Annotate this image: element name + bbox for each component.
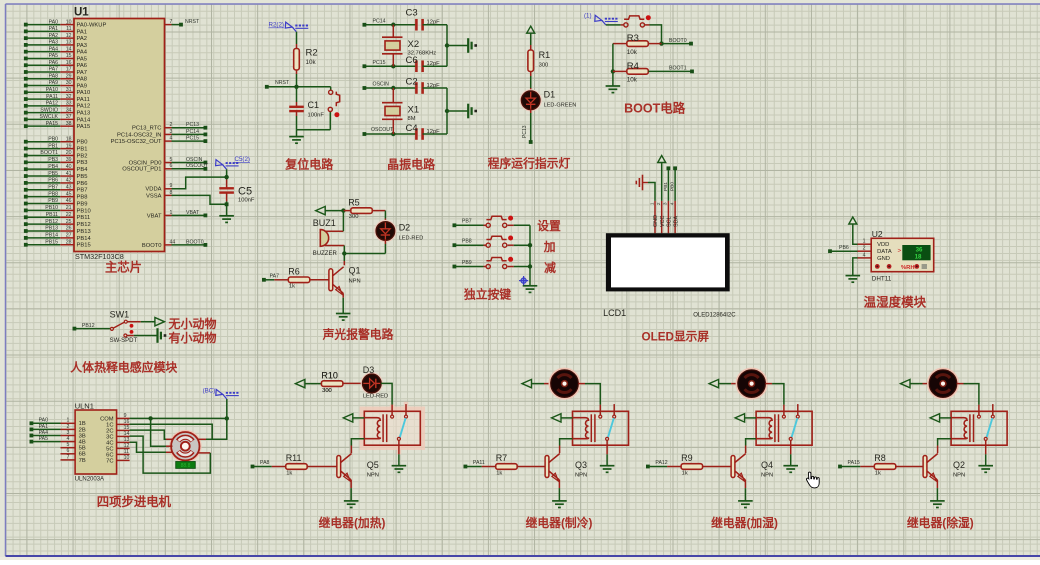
svg-text:4B: 4B bbox=[79, 440, 86, 446]
svg-text:7C: 7C bbox=[106, 458, 113, 464]
svg-text:PA5: PA5 bbox=[39, 436, 49, 442]
svg-text:2: 2 bbox=[863, 246, 866, 252]
svg-text:1: 1 bbox=[67, 418, 70, 424]
svg-text:PA11: PA11 bbox=[473, 460, 485, 466]
svg-text:BOOT0: BOOT0 bbox=[142, 243, 162, 249]
svg-text:D2: D2 bbox=[399, 222, 411, 232]
svg-text:R11: R11 bbox=[286, 453, 302, 463]
svg-text:Q5: Q5 bbox=[367, 460, 379, 470]
svg-text:>: > bbox=[898, 247, 902, 254]
svg-text:继电器(加湿): 继电器(加湿) bbox=[711, 516, 778, 530]
svg-text:6: 6 bbox=[170, 163, 173, 169]
svg-text:PA0: PA0 bbox=[49, 19, 59, 25]
svg-text:OSCOUT: OSCOUT bbox=[371, 127, 394, 133]
svg-text:2: 2 bbox=[67, 424, 70, 430]
svg-text:OSCIN: OSCIN bbox=[186, 157, 203, 163]
svg-text:X1: X1 bbox=[408, 105, 420, 116]
svg-text:PB13: PB13 bbox=[77, 229, 91, 235]
svg-text:25: 25 bbox=[66, 219, 72, 225]
svg-text:12pF: 12pF bbox=[427, 83, 441, 89]
svg-text:SW1: SW1 bbox=[110, 310, 130, 320]
svg-text:BOOT0: BOOT0 bbox=[186, 239, 204, 245]
svg-text:PA11: PA11 bbox=[46, 94, 58, 100]
svg-text:VBAT: VBAT bbox=[147, 213, 162, 219]
svg-text:30: 30 bbox=[66, 80, 72, 86]
svg-text:PA1: PA1 bbox=[49, 26, 59, 32]
svg-text:PB8: PB8 bbox=[462, 239, 472, 245]
svg-text:SWCLK: SWCLK bbox=[40, 114, 59, 120]
svg-text:PA6: PA6 bbox=[49, 60, 59, 66]
svg-text:3: 3 bbox=[170, 129, 173, 135]
svg-text:X2: X2 bbox=[408, 39, 420, 50]
svg-text:加: 加 bbox=[543, 240, 556, 254]
svg-text:PB4: PB4 bbox=[48, 164, 58, 170]
svg-text:R5: R5 bbox=[348, 198, 360, 208]
svg-text:PA2: PA2 bbox=[49, 33, 59, 39]
svg-text:PB12: PB12 bbox=[82, 323, 95, 329]
svg-text:SDA: SDA bbox=[673, 216, 679, 227]
svg-text:16: 16 bbox=[66, 60, 72, 66]
svg-text:6: 6 bbox=[67, 448, 70, 454]
svg-text:NPN: NPN bbox=[953, 473, 965, 479]
svg-text:1: 1 bbox=[170, 210, 173, 216]
svg-text:U1: U1 bbox=[74, 7, 89, 19]
svg-text:PA4: PA4 bbox=[77, 50, 88, 56]
svg-text:PC15-OSC32_OUT: PC15-OSC32_OUT bbox=[111, 139, 162, 145]
svg-text:10k: 10k bbox=[306, 59, 317, 66]
svg-text:31: 31 bbox=[66, 87, 72, 93]
svg-text:C3: C3 bbox=[406, 8, 418, 19]
svg-text:SWDIO: SWDIO bbox=[40, 107, 58, 113]
svg-text:PA10: PA10 bbox=[77, 90, 91, 96]
svg-text:21: 21 bbox=[66, 205, 72, 211]
svg-text:34: 34 bbox=[66, 107, 72, 113]
svg-text:四项步进电机: 四项步进电机 bbox=[97, 494, 172, 509]
svg-text:PA2: PA2 bbox=[77, 36, 88, 42]
svg-text:PB1: PB1 bbox=[663, 182, 669, 191]
svg-text:PA12: PA12 bbox=[46, 101, 58, 107]
svg-text:8M: 8M bbox=[408, 116, 416, 122]
svg-text:PB13: PB13 bbox=[45, 226, 58, 232]
svg-text:D3: D3 bbox=[363, 365, 375, 375]
svg-text:PB10: PB10 bbox=[45, 205, 58, 211]
svg-text:PA8: PA8 bbox=[260, 460, 270, 466]
svg-text:继电器(除湿): 继电器(除湿) bbox=[907, 516, 974, 530]
svg-text:20: 20 bbox=[66, 150, 72, 156]
svg-text:PA11: PA11 bbox=[77, 97, 90, 103]
svg-text:PB1: PB1 bbox=[77, 146, 88, 152]
svg-text:PA12: PA12 bbox=[655, 460, 667, 466]
svg-text:300: 300 bbox=[322, 388, 332, 394]
svg-text:29: 29 bbox=[66, 73, 72, 79]
svg-text:1k: 1k bbox=[496, 470, 502, 476]
svg-text:NPN: NPN bbox=[367, 473, 379, 479]
svg-text:声光报警电路: 声光报警电路 bbox=[322, 328, 394, 342]
svg-text:R2: R2 bbox=[306, 48, 318, 59]
svg-text:1k: 1k bbox=[875, 470, 881, 476]
svg-text:28: 28 bbox=[66, 239, 72, 245]
svg-text:PB4: PB4 bbox=[77, 167, 89, 173]
svg-text:R4: R4 bbox=[627, 61, 639, 72]
svg-text:LED-GREEN: LED-GREEN bbox=[544, 103, 577, 109]
svg-text:39: 39 bbox=[66, 157, 72, 163]
svg-text:44: 44 bbox=[170, 239, 176, 245]
svg-text:OSCOUT_PD1: OSCOUT_PD1 bbox=[122, 167, 161, 173]
svg-text:PA14: PA14 bbox=[77, 117, 92, 123]
svg-text:PB12: PB12 bbox=[45, 219, 58, 225]
svg-text:PA5: PA5 bbox=[49, 53, 59, 59]
svg-text:C4: C4 bbox=[406, 123, 418, 134]
svg-text:PB7: PB7 bbox=[48, 184, 58, 190]
svg-text:BOOT1: BOOT1 bbox=[669, 66, 687, 72]
svg-text:12: 12 bbox=[66, 33, 72, 39]
svg-text:ULN2003A: ULN2003A bbox=[75, 477, 104, 483]
svg-text:6B: 6B bbox=[79, 452, 86, 458]
svg-text:PA10: PA10 bbox=[46, 87, 58, 93]
svg-text:DATA: DATA bbox=[877, 249, 892, 255]
svg-text:Q4: Q4 bbox=[761, 460, 773, 470]
svg-text:PB0: PB0 bbox=[77, 140, 88, 146]
svg-text:PB9: PB9 bbox=[462, 260, 472, 266]
svg-text:1: 1 bbox=[863, 239, 866, 245]
svg-text:PB1: PB1 bbox=[48, 143, 58, 149]
svg-text:PA12: PA12 bbox=[77, 104, 91, 110]
svg-text:Q2: Q2 bbox=[953, 460, 965, 470]
svg-text:继电器(制冷): 继电器(制冷) bbox=[526, 516, 593, 530]
svg-text:R2(2): R2(2) bbox=[269, 22, 284, 29]
svg-text:3B: 3B bbox=[79, 433, 86, 439]
svg-text:PB8: PB8 bbox=[77, 195, 88, 201]
svg-text:继电器(加热): 继电器(加热) bbox=[319, 516, 386, 530]
svg-text:1k: 1k bbox=[286, 470, 292, 476]
svg-text:5: 5 bbox=[170, 157, 173, 163]
svg-text:Q3: Q3 bbox=[575, 460, 587, 470]
svg-text:减: 减 bbox=[544, 261, 556, 275]
svg-text:1B: 1B bbox=[79, 421, 86, 427]
svg-text:10k: 10k bbox=[627, 49, 638, 56]
svg-text:C6: C6 bbox=[406, 55, 418, 66]
svg-text:程序运行指示灯: 程序运行指示灯 bbox=[488, 157, 571, 171]
svg-text:PB8: PB8 bbox=[48, 191, 58, 197]
svg-text:PB6: PB6 bbox=[77, 181, 88, 187]
svg-text:D1: D1 bbox=[544, 90, 556, 100]
svg-text:27: 27 bbox=[66, 233, 72, 239]
svg-text:14: 14 bbox=[66, 46, 72, 52]
svg-text:ULN1: ULN1 bbox=[75, 402, 94, 411]
svg-text:PB0: PB0 bbox=[48, 136, 58, 142]
svg-text:PB14: PB14 bbox=[77, 236, 92, 242]
svg-text:12pF: 12pF bbox=[427, 129, 441, 135]
svg-text:300: 300 bbox=[349, 214, 359, 220]
svg-text:PC13: PC13 bbox=[522, 125, 528, 138]
svg-text:(1): (1) bbox=[584, 13, 592, 20]
svg-text:R6: R6 bbox=[288, 267, 300, 277]
svg-text:NPN: NPN bbox=[349, 279, 361, 285]
svg-text:PC15: PC15 bbox=[373, 60, 386, 66]
svg-text:OSCIN_PD0: OSCIN_PD0 bbox=[129, 160, 162, 166]
svg-text:PC13_RTC: PC13_RTC bbox=[132, 126, 162, 132]
svg-text:17: 17 bbox=[66, 67, 72, 73]
svg-text:19: 19 bbox=[66, 143, 72, 149]
svg-text:PA0-WKUP: PA0-WKUP bbox=[77, 23, 107, 29]
svg-text:1k: 1k bbox=[289, 284, 295, 290]
svg-text:独立按键: 独立按键 bbox=[463, 288, 511, 302]
svg-text:PB3: PB3 bbox=[77, 160, 88, 166]
svg-text:PB0: PB0 bbox=[670, 182, 676, 191]
svg-text:PB15: PB15 bbox=[77, 243, 91, 249]
svg-text:PA3: PA3 bbox=[49, 40, 59, 46]
svg-text:NRST: NRST bbox=[185, 19, 200, 25]
svg-text:45: 45 bbox=[66, 191, 72, 197]
svg-text:Q1: Q1 bbox=[349, 266, 361, 276]
svg-text:R7: R7 bbox=[496, 453, 508, 463]
svg-text:C2: C2 bbox=[406, 77, 418, 88]
svg-text:无小动物: 无小动物 bbox=[168, 316, 217, 331]
svg-text:11: 11 bbox=[66, 26, 71, 32]
svg-text:38: 38 bbox=[66, 121, 72, 127]
svg-text:2: 2 bbox=[170, 122, 173, 128]
svg-text:VCC: VCC bbox=[660, 216, 666, 227]
svg-text:PB7: PB7 bbox=[77, 188, 88, 194]
svg-text:PA8: PA8 bbox=[49, 73, 59, 79]
svg-text:NPN: NPN bbox=[761, 473, 773, 479]
svg-text:10k: 10k bbox=[627, 77, 638, 84]
svg-text:R9: R9 bbox=[681, 453, 693, 463]
svg-text:复位电路: 复位电路 bbox=[284, 157, 334, 172]
svg-text:4: 4 bbox=[170, 136, 173, 142]
svg-text:BUZZER: BUZZER bbox=[313, 251, 338, 257]
svg-text:PA4: PA4 bbox=[39, 430, 49, 436]
svg-text:PA5: PA5 bbox=[77, 56, 88, 62]
svg-text:22: 22 bbox=[66, 212, 72, 218]
svg-text:(BC): (BC) bbox=[203, 387, 216, 394]
svg-text:26: 26 bbox=[66, 226, 72, 232]
svg-text:PC14: PC14 bbox=[373, 18, 386, 24]
svg-text:NRST: NRST bbox=[275, 80, 290, 86]
svg-text:OSCOUT: OSCOUT bbox=[186, 163, 209, 169]
svg-text:C5: C5 bbox=[238, 186, 252, 198]
svg-text:1k: 1k bbox=[682, 470, 688, 476]
svg-text:300: 300 bbox=[539, 63, 549, 69]
svg-text:SW-SPDT: SW-SPDT bbox=[110, 338, 138, 344]
svg-text:LED-RED: LED-RED bbox=[399, 236, 424, 242]
svg-text:OLED显示屏: OLED显示屏 bbox=[642, 331, 710, 344]
svg-text:%RH: %RH bbox=[901, 265, 915, 271]
svg-text:PC14: PC14 bbox=[186, 129, 199, 135]
svg-text:PB11: PB11 bbox=[77, 215, 91, 221]
svg-text:LCD1: LCD1 bbox=[603, 308, 626, 318]
svg-text:人体热释电感应模块: 人体热释电感应模块 bbox=[70, 361, 177, 375]
svg-text:BUZ1: BUZ1 bbox=[313, 218, 336, 228]
svg-text:OLED12864I2C: OLED12864I2C bbox=[693, 313, 736, 319]
svg-text:有小动物: 有小动物 bbox=[169, 330, 217, 345]
svg-text:10: 10 bbox=[66, 19, 72, 25]
svg-text:PA4: PA4 bbox=[49, 46, 59, 52]
svg-text:VDDA: VDDA bbox=[145, 187, 161, 193]
svg-text:13: 13 bbox=[66, 40, 72, 46]
svg-text:PA7: PA7 bbox=[270, 273, 280, 279]
svg-text:7: 7 bbox=[170, 19, 173, 25]
svg-text:18: 18 bbox=[915, 253, 922, 260]
svg-text:PA1: PA1 bbox=[77, 29, 88, 35]
svg-text:PA7: PA7 bbox=[49, 67, 59, 73]
svg-text:PA0: PA0 bbox=[39, 418, 49, 424]
svg-text:C5(2): C5(2) bbox=[235, 156, 250, 163]
svg-text:46: 46 bbox=[66, 198, 72, 204]
svg-text:PA9: PA9 bbox=[77, 83, 88, 89]
svg-text:VSSA: VSSA bbox=[146, 193, 162, 199]
svg-text:OSCIN: OSCIN bbox=[373, 82, 390, 88]
svg-text:10: 10 bbox=[124, 455, 130, 461]
svg-text:PB14: PB14 bbox=[45, 233, 58, 239]
svg-text:设置: 设置 bbox=[537, 219, 561, 233]
svg-text:PA15: PA15 bbox=[46, 121, 58, 127]
svg-text:PB9: PB9 bbox=[77, 201, 88, 207]
svg-text:R3: R3 bbox=[627, 33, 639, 44]
svg-text:PA7: PA7 bbox=[77, 70, 88, 76]
svg-text:PB11: PB11 bbox=[46, 212, 58, 218]
svg-text:PB6: PB6 bbox=[839, 245, 849, 251]
svg-text:主芯片: 主芯片 bbox=[105, 260, 142, 275]
svg-text:5: 5 bbox=[67, 442, 70, 448]
svg-text:12pF: 12pF bbox=[427, 61, 441, 67]
svg-text:BOOT1: BOOT1 bbox=[40, 150, 58, 156]
svg-text:温湿度模块: 温湿度模块 bbox=[864, 294, 927, 309]
svg-text:PC14-OSC32_IN: PC14-OSC32_IN bbox=[117, 132, 161, 138]
svg-text:晶振电路: 晶振电路 bbox=[387, 157, 436, 172]
svg-text:NPN: NPN bbox=[575, 473, 587, 479]
svg-text:100nF: 100nF bbox=[238, 198, 255, 204]
svg-text:GND: GND bbox=[653, 215, 659, 227]
svg-text:VBAT: VBAT bbox=[186, 210, 200, 216]
svg-text:PB5: PB5 bbox=[77, 174, 88, 180]
svg-text:VDD: VDD bbox=[877, 242, 889, 248]
svg-text:PB6: PB6 bbox=[48, 178, 58, 184]
svg-text:41: 41 bbox=[66, 171, 72, 177]
svg-text:PA13: PA13 bbox=[77, 111, 91, 117]
svg-text:15: 15 bbox=[66, 53, 72, 59]
svg-text:PC13: PC13 bbox=[186, 122, 199, 128]
svg-text:PB5: PB5 bbox=[48, 171, 58, 177]
svg-text:PA8: PA8 bbox=[77, 77, 88, 83]
svg-text:BOOT电路: BOOT电路 bbox=[624, 100, 686, 115]
svg-text:100nF: 100nF bbox=[308, 113, 325, 119]
svg-text:18: 18 bbox=[66, 136, 72, 142]
svg-text:PA15: PA15 bbox=[77, 124, 91, 130]
svg-text:7B: 7B bbox=[79, 458, 86, 464]
svg-text:PA3: PA3 bbox=[77, 43, 88, 49]
svg-text:PB2: PB2 bbox=[77, 153, 88, 159]
svg-text:4: 4 bbox=[67, 436, 70, 442]
svg-text:PB12: PB12 bbox=[77, 222, 91, 228]
svg-text:PA6: PA6 bbox=[77, 63, 88, 69]
svg-text:SCL: SCL bbox=[667, 217, 673, 228]
svg-text:PB9: PB9 bbox=[48, 198, 58, 204]
svg-text:88.8: 88.8 bbox=[181, 463, 191, 469]
svg-text:3: 3 bbox=[67, 430, 70, 436]
svg-text:DHT11: DHT11 bbox=[872, 276, 892, 283]
svg-text:4: 4 bbox=[863, 252, 866, 258]
svg-text:PC15: PC15 bbox=[186, 136, 199, 142]
svg-text:43: 43 bbox=[66, 184, 72, 190]
svg-text:PA9: PA9 bbox=[49, 80, 59, 86]
svg-text:LED-RED: LED-RED bbox=[363, 394, 388, 400]
svg-text:40: 40 bbox=[66, 164, 72, 170]
svg-text:PB7: PB7 bbox=[462, 219, 472, 225]
svg-text:12pF: 12pF bbox=[427, 20, 441, 26]
svg-text:32: 32 bbox=[66, 94, 72, 100]
svg-text:PB10: PB10 bbox=[77, 208, 91, 214]
svg-text:PA15: PA15 bbox=[848, 460, 860, 466]
svg-text:R10: R10 bbox=[321, 370, 338, 380]
svg-text:R1: R1 bbox=[539, 50, 551, 60]
svg-text:GND: GND bbox=[877, 256, 890, 262]
svg-text:37: 37 bbox=[66, 114, 72, 120]
svg-text:7: 7 bbox=[67, 454, 70, 460]
svg-text:BOOT0: BOOT0 bbox=[669, 38, 687, 44]
svg-text:PA1: PA1 bbox=[39, 424, 49, 430]
svg-text:PB3: PB3 bbox=[48, 157, 58, 163]
svg-text:R8: R8 bbox=[874, 453, 886, 463]
svg-text:2B: 2B bbox=[79, 427, 86, 433]
svg-text:PB15: PB15 bbox=[45, 239, 58, 245]
svg-text:5B: 5B bbox=[79, 446, 86, 452]
svg-text:C1: C1 bbox=[308, 100, 320, 110]
svg-text:42: 42 bbox=[66, 178, 72, 184]
svg-text:33: 33 bbox=[66, 101, 72, 107]
